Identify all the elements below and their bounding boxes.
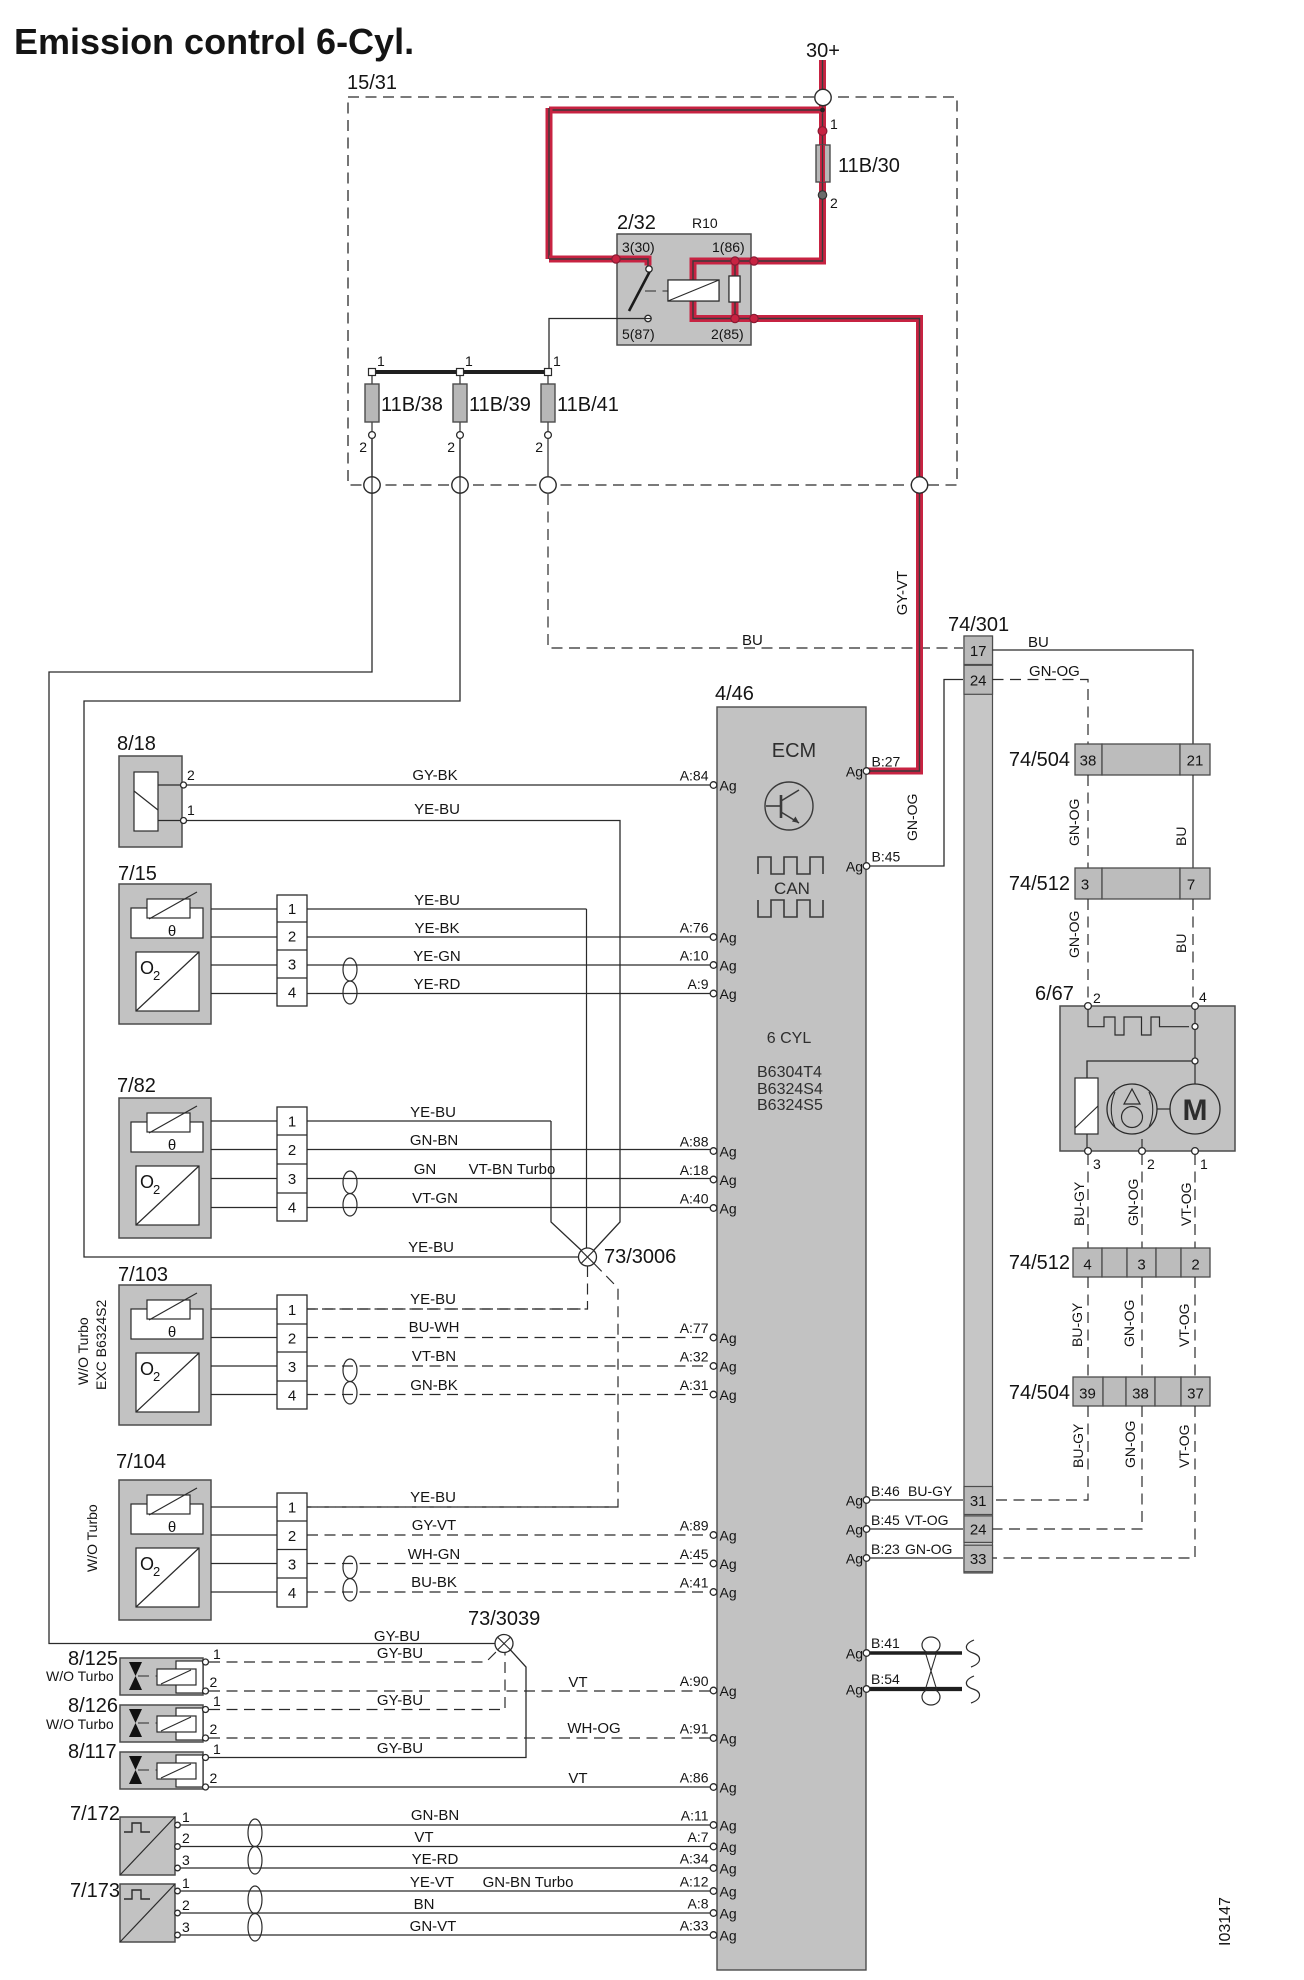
svg-text:GN-BN: GN-BN [410,1132,458,1149]
svg-text:2: 2 [1093,990,1101,1006]
svg-text:B:46: B:46 [871,1483,900,1499]
svg-text:74/512: 74/512 [1009,1252,1070,1274]
svg-text:37: 37 [1187,1386,1204,1403]
svg-text:B:54: B:54 [871,1671,900,1687]
svg-text:Ag: Ag [846,1493,863,1509]
svg-text:B:45: B:45 [871,1512,900,1528]
svg-text:YE-VT: YE-VT [410,1874,454,1891]
svg-text:30+: 30+ [806,40,840,62]
svg-text:YE-RD: YE-RD [412,1851,459,1868]
svg-text:W/O Turbo: W/O Turbo [75,1317,91,1385]
svg-text:2: 2 [210,1674,218,1690]
svg-text:BU-GY: BU-GY [1069,1302,1085,1347]
svg-text:GY-BU: GY-BU [377,1645,423,1662]
svg-text:4: 4 [288,1388,296,1405]
svg-text:GY-BU: GY-BU [374,1628,420,1645]
svg-text:A:90: A:90 [680,1673,709,1689]
svg-text:Ag: Ag [846,764,863,780]
svg-text:1: 1 [288,1114,296,1131]
svg-text:GN-OG: GN-OG [1122,1421,1138,1468]
svg-text:74/301: 74/301 [948,614,1009,636]
svg-text:A:89: A:89 [680,1518,709,1534]
svg-text:Ag: Ag [720,1928,737,1944]
svg-text:1: 1 [288,901,296,918]
svg-text:A:11: A:11 [681,1808,709,1824]
svg-text:Ag: Ag [720,1359,737,1375]
svg-text:3: 3 [288,1556,296,1573]
svg-text:YE-RD: YE-RD [414,976,461,993]
svg-text:Ag: Ag [720,1861,737,1877]
svg-text:73/3006: 73/3006 [604,1246,676,1268]
svg-text:3(30): 3(30) [622,239,655,255]
svg-text:2: 2 [1191,1257,1199,1274]
svg-text:GN-OG: GN-OG [905,1541,952,1557]
svg-text:8/126: 8/126 [68,1695,118,1717]
svg-text:7: 7 [1187,877,1195,894]
svg-text:GY-BU: GY-BU [377,1740,423,1757]
svg-text:VT-GN: VT-GN [412,1190,458,1207]
svg-text:1: 1 [213,1693,221,1709]
svg-text:YE-BU: YE-BU [410,1489,456,1506]
svg-text:8/18: 8/18 [117,733,156,755]
svg-text:Ag: Ag [720,1201,737,1217]
svg-text:2/32: 2/32 [617,212,656,234]
svg-text:R10: R10 [692,215,718,231]
svg-text:11B/30: 11B/30 [838,155,900,177]
svg-text:74/504: 74/504 [1009,749,1070,771]
svg-text:1: 1 [187,802,195,818]
svg-text:2: 2 [153,1564,160,1579]
svg-text:A:88: A:88 [680,1134,709,1150]
svg-text:3: 3 [182,1852,190,1868]
svg-text:GN-OG: GN-OG [1125,1179,1141,1226]
svg-text:GN-BN Turbo: GN-BN Turbo [483,1874,574,1891]
svg-text:Ag: Ag [846,1646,863,1662]
svg-text:2: 2 [535,439,543,455]
svg-text:θ: θ [168,1519,176,1536]
svg-text:GN-OG: GN-OG [1066,799,1082,846]
svg-text:Ag: Ag [720,1387,737,1403]
svg-text:θ: θ [168,1324,176,1341]
svg-text:Emission control 6-Cyl.: Emission control 6-Cyl. [14,21,414,62]
svg-text:2: 2 [210,1721,218,1737]
svg-text:VT: VT [568,1770,587,1787]
svg-text:3: 3 [182,1919,190,1935]
svg-text:2: 2 [1147,1156,1155,1172]
svg-text:YE-BU: YE-BU [408,1239,454,1256]
svg-text:GN-OG: GN-OG [1121,1300,1137,1347]
svg-text:1: 1 [213,1646,221,1662]
svg-text:B6304T4: B6304T4 [757,1064,822,1081]
svg-text:1: 1 [377,353,385,369]
svg-text:15/31: 15/31 [347,72,397,94]
svg-text:1: 1 [182,1809,190,1825]
svg-text:3: 3 [288,957,296,974]
svg-text:A:12: A:12 [680,1874,709,1890]
svg-text:VT: VT [414,1829,433,1846]
svg-text:EXC B6324S2: EXC B6324S2 [93,1300,109,1390]
svg-text:2: 2 [153,1369,160,1384]
svg-text:7/82: 7/82 [117,1075,156,1097]
svg-text:3: 3 [288,1171,296,1188]
svg-text:24: 24 [970,1522,987,1539]
svg-text:B:27: B:27 [872,754,901,770]
svg-text:W/O Turbo: W/O Turbo [46,1716,114,1732]
svg-text:Ag: Ag [846,1682,863,1698]
svg-text:Ag: Ag [720,930,737,946]
svg-text:BU-GY: BU-GY [908,1483,953,1499]
svg-text:Ag: Ag [720,1144,737,1160]
svg-text:GN-OG: GN-OG [1029,663,1080,680]
svg-text:A:32: A:32 [680,1349,709,1365]
svg-text:B6324S4: B6324S4 [757,1081,823,1098]
svg-text:7/173: 7/173 [70,1880,120,1902]
svg-text:B:23: B:23 [871,1541,900,1557]
svg-text:GY-BU: GY-BU [377,1692,423,1709]
svg-text:A:40: A:40 [680,1191,709,1207]
svg-text:5(87): 5(87) [622,326,655,342]
svg-text:Ag: Ag [720,1585,737,1601]
svg-text:Ag: Ag [720,958,737,974]
svg-text:1: 1 [1200,1156,1208,1172]
svg-text:Ag: Ag [846,1551,863,1567]
svg-text:A:45: A:45 [680,1546,709,1562]
svg-text:VT-OG: VT-OG [1178,1182,1194,1226]
svg-text:1: 1 [553,353,561,369]
svg-text:39: 39 [1079,1386,1096,1403]
svg-text:11B/38: 11B/38 [381,394,443,416]
svg-text:B6324S5: B6324S5 [757,1097,823,1114]
svg-text:21: 21 [1187,753,1204,770]
svg-text:Ag: Ag [720,1330,737,1346]
svg-text:Ag: Ag [720,1839,737,1855]
svg-text:VT-BN Turbo: VT-BN Turbo [469,1161,556,1178]
svg-text:A:33: A:33 [680,1918,709,1934]
svg-text:YE-GN: YE-GN [413,948,461,965]
svg-text:4: 4 [288,1200,296,1217]
svg-text:GY-VT: GY-VT [412,1517,456,1534]
svg-text:A:31: A:31 [680,1377,709,1393]
svg-text:A:76: A:76 [680,920,709,936]
svg-text:1: 1 [213,1741,221,1757]
svg-text:A:7: A:7 [687,1829,708,1845]
svg-text:GN-BN: GN-BN [411,1807,459,1824]
svg-text:2: 2 [447,439,455,455]
svg-text:31: 31 [970,1493,987,1510]
svg-text:θ: θ [168,923,176,940]
svg-text:Ag: Ag [720,1884,737,1900]
svg-text:3: 3 [1081,877,1089,894]
svg-text:4: 4 [1199,989,1207,1005]
svg-text:1(86): 1(86) [712,239,745,255]
svg-text:3: 3 [288,1359,296,1376]
svg-text:BU-BK: BU-BK [411,1574,457,1591]
svg-text:2: 2 [288,929,296,946]
svg-text:Ag: Ag [720,778,737,794]
svg-text:VT-BN: VT-BN [412,1348,456,1365]
svg-text:Ag: Ag [720,986,737,1002]
svg-text:2: 2 [187,767,195,783]
svg-text:O: O [140,1554,154,1574]
svg-text:4/46: 4/46 [715,683,754,705]
svg-text:VT: VT [568,1674,587,1691]
svg-text:BU-GY: BU-GY [1071,1181,1087,1226]
svg-text:2: 2 [153,968,160,983]
svg-text:2: 2 [182,1830,190,1846]
svg-text:Ag: Ag [720,1528,737,1544]
svg-text:YE-BU: YE-BU [414,892,460,909]
svg-text:2: 2 [288,1528,296,1545]
svg-text:WH-GN: WH-GN [408,1546,461,1563]
svg-text:4: 4 [288,1585,296,1602]
svg-text:YE-BU: YE-BU [414,801,460,818]
svg-text:4: 4 [1083,1257,1091,1274]
svg-text:2: 2 [288,1142,296,1159]
svg-text:VT-OG: VT-OG [1176,1303,1192,1347]
svg-text:VT-OG: VT-OG [1176,1424,1192,1468]
svg-text:CAN: CAN [774,879,810,898]
svg-text:O: O [140,1172,154,1192]
svg-text:M: M [1183,1094,1208,1127]
svg-text:Ag: Ag [846,1522,863,1538]
svg-text:A:9: A:9 [687,976,708,992]
svg-text:A:91: A:91 [680,1721,709,1737]
svg-text:B:41: B:41 [871,1635,900,1651]
svg-text:WH-OG: WH-OG [567,1720,620,1737]
svg-text:3: 3 [1137,1257,1145,1274]
svg-text:ECM: ECM [772,740,816,762]
svg-text:BU-WH: BU-WH [409,1319,460,1336]
svg-text:Ag: Ag [720,1556,737,1572]
svg-text:1: 1 [288,1302,296,1319]
svg-text:2: 2 [830,195,838,211]
svg-text:Ag: Ag [720,1731,737,1747]
svg-text:33: 33 [970,1551,987,1568]
svg-text:YE-BK: YE-BK [414,920,459,937]
svg-text:6/67: 6/67 [1035,983,1074,1005]
svg-text:Ag: Ag [846,859,863,875]
svg-text:GN-OG: GN-OG [1066,911,1082,958]
svg-text:1: 1 [465,353,473,369]
svg-text:I03147: I03147 [1217,1897,1234,1946]
svg-text:Ag: Ag [720,1780,737,1796]
svg-text:A:10: A:10 [680,948,709,964]
svg-text:2: 2 [210,1770,218,1786]
svg-text:BU: BU [742,632,763,649]
svg-text:38: 38 [1132,1386,1149,1403]
svg-text:Ag: Ag [720,1172,737,1188]
svg-text:1: 1 [830,116,838,132]
svg-text:A:84: A:84 [680,768,709,784]
svg-text:2: 2 [182,1897,190,1913]
svg-text:Ag: Ag [720,1906,737,1922]
svg-text:A:77: A:77 [680,1320,709,1336]
svg-text:Ag: Ag [720,1818,737,1834]
svg-text:1: 1 [182,1875,190,1891]
svg-text:1: 1 [288,1500,296,1517]
svg-text:GN-OG: GN-OG [904,794,920,841]
svg-text:GY-VT: GY-VT [894,571,911,615]
svg-text:θ: θ [168,1137,176,1154]
svg-text:11B/41: 11B/41 [557,394,619,416]
svg-text:8/125: 8/125 [68,1648,118,1670]
svg-text:A:86: A:86 [680,1770,709,1786]
svg-text:38: 38 [1080,753,1097,770]
svg-text:BU-GY: BU-GY [1070,1423,1086,1468]
svg-text:A:8: A:8 [687,1896,708,1912]
svg-text:7/15: 7/15 [118,863,157,885]
svg-text:O: O [140,958,154,978]
svg-text:3: 3 [1093,1156,1101,1172]
svg-text:74/504: 74/504 [1009,1382,1070,1404]
svg-text:YE-BU: YE-BU [410,1104,456,1121]
svg-text:A:34: A:34 [680,1851,709,1867]
svg-text:YE-BU: YE-BU [410,1291,456,1308]
svg-text:6 CYL: 6 CYL [767,1030,812,1047]
svg-text:8/117: 8/117 [68,1741,117,1763]
svg-text:24: 24 [970,672,987,689]
svg-text:7/172: 7/172 [70,1803,120,1825]
svg-text:BU: BU [1173,934,1189,953]
svg-text:A:41: A:41 [680,1575,709,1591]
svg-text:2: 2 [288,1331,296,1348]
svg-text:74/512: 74/512 [1009,873,1070,895]
svg-text:GN-BK: GN-BK [410,1377,458,1394]
svg-text:7/103: 7/103 [118,1264,168,1286]
svg-text:BN: BN [414,1896,435,1913]
svg-text:BU: BU [1028,634,1049,651]
svg-text:73/3039: 73/3039 [468,1608,540,1630]
svg-text:W/O Turbo: W/O Turbo [84,1504,100,1572]
svg-text:17: 17 [970,643,987,660]
svg-text:A:18: A:18 [680,1162,709,1178]
svg-text:GY-BK: GY-BK [412,767,457,784]
svg-text:BU: BU [1173,827,1189,846]
svg-text:11B/39: 11B/39 [469,394,531,416]
svg-text:Ag: Ag [720,1683,737,1699]
svg-text:GN-VT: GN-VT [410,1918,457,1935]
svg-text:2: 2 [359,439,367,455]
svg-text:B:45: B:45 [872,849,901,865]
svg-text:2(85): 2(85) [711,326,744,342]
svg-text:4: 4 [288,985,296,1002]
svg-text:7/104: 7/104 [116,1451,166,1473]
svg-text:2: 2 [153,1182,160,1197]
svg-text:VT-OG: VT-OG [905,1512,949,1528]
svg-text:O: O [140,1359,154,1379]
svg-text:W/O Turbo: W/O Turbo [46,1668,114,1684]
svg-text:GN: GN [414,1161,437,1178]
